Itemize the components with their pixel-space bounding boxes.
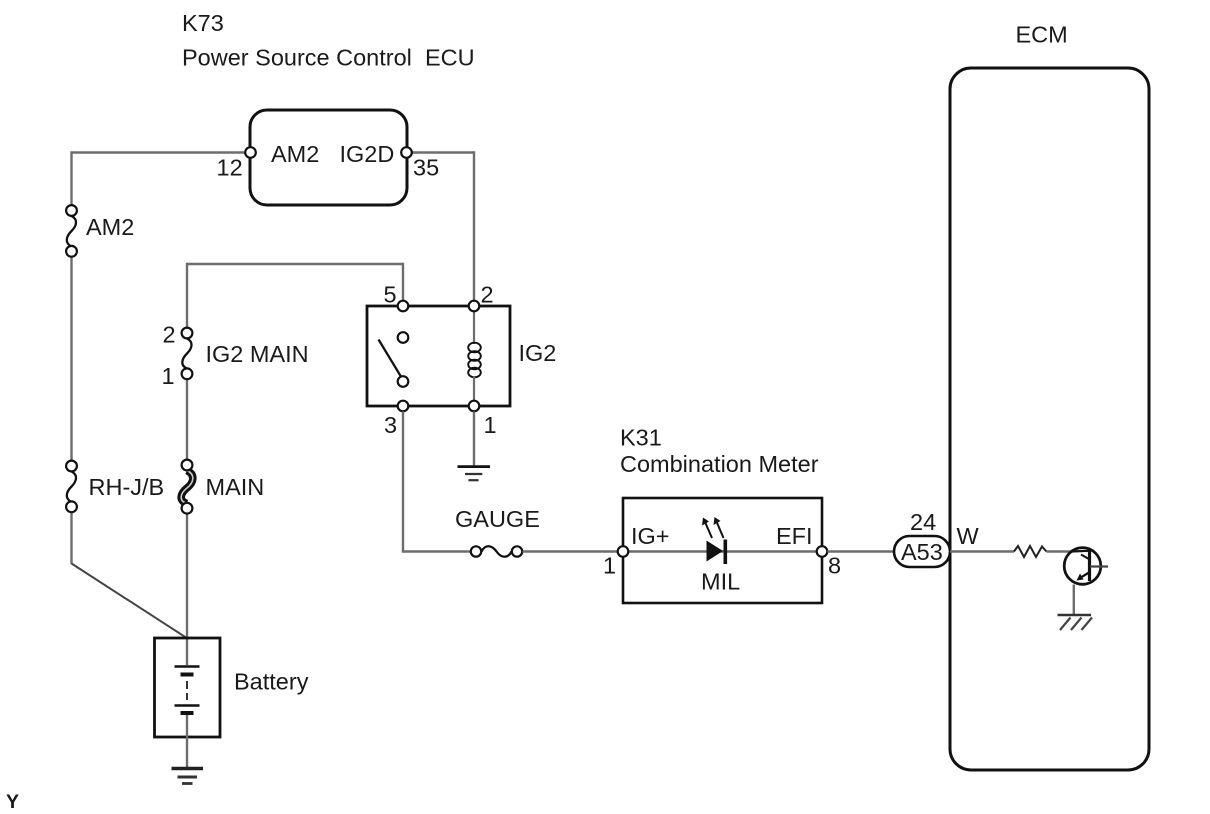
fuse IG2 MAIN <box>162 322 309 390</box>
svg-text:5: 5 <box>384 281 397 307</box>
wire inside ECM to resistor <box>950 550 1014 552</box>
svg-text:1: 1 <box>162 363 175 389</box>
wire coil to relay pin1 <box>473 376 475 406</box>
wire fuse GAUGE to meter pin 1 <box>523 550 619 552</box>
wire between fuse IG2 MAIN and fusible link MAIN <box>186 379 188 461</box>
svg-text:IG+: IG+ <box>631 523 670 549</box>
svg-text:Combination Meter: Combination Meter <box>620 451 819 477</box>
svg-text:K73: K73 <box>182 10 224 36</box>
pin 2 of relay <box>469 281 494 311</box>
pin 8 of meter <box>817 546 841 579</box>
battery cells <box>175 667 200 714</box>
svg-text:A53: A53 <box>901 539 943 565</box>
svg-text:IG2 MAIN: IG2 MAIN <box>206 341 309 367</box>
connector A53 <box>894 509 950 567</box>
relay switch moving contact <box>398 376 409 387</box>
relay switch blade <box>379 340 401 377</box>
svg-text:1: 1 <box>484 412 497 438</box>
svg-text:Power Source Control ECU: Power Source Control ECU <box>182 45 475 71</box>
ground under battery <box>172 769 204 784</box>
svg-text:35: 35 <box>413 155 439 181</box>
wire vertical x=187 down to fuse IG2 MAIN <box>186 263 188 329</box>
ground under relay <box>458 467 491 481</box>
wire from K73 pin 35 right then down <box>411 151 474 153</box>
svg-text:8: 8 <box>828 553 841 579</box>
pin 35 of K73 <box>401 147 439 180</box>
svg-text:2: 2 <box>163 322 176 348</box>
wire resistor to transistor base <box>1047 550 1073 552</box>
svg-text:ECM: ECM <box>1016 22 1068 48</box>
svg-text:RH-J/B: RH-J/B <box>89 474 165 500</box>
fuse RH-J/B <box>66 461 164 513</box>
wire relay pin3 down <box>402 412 404 552</box>
svg-text:Y: Y <box>6 791 19 813</box>
wire between fuse AM2 and fuse RH-J/B <box>70 256 72 462</box>
wire vertical down to relay pin 5 <box>402 263 404 302</box>
wire corner to fuse GAUGE <box>402 550 472 552</box>
fuse AM2 <box>66 205 134 257</box>
wire left vertical from corner down to fuse AM2 <box>70 151 72 206</box>
svg-text:2: 2 <box>481 281 494 307</box>
pin 1 of meter <box>603 546 628 579</box>
svg-text:IG2D: IG2D <box>340 141 395 167</box>
pin 3 of relay <box>384 401 408 438</box>
connector K73 ECU body <box>250 110 407 205</box>
pin 12 of K73 <box>217 147 256 180</box>
wire relay pin1 to ground <box>473 412 475 466</box>
transistor Q (MIL driver) <box>1064 548 1108 585</box>
wire below fuse RH-J/B <box>70 512 72 564</box>
svg-text:24: 24 <box>910 509 936 535</box>
svg-text:GAUGE: GAUGE <box>455 506 540 532</box>
wire from K73 pin 12 left to node at top-left <box>72 151 247 153</box>
svg-text:AM2: AM2 <box>86 214 134 240</box>
pin 1 of relay <box>469 401 497 438</box>
svg-text:MAIN: MAIN <box>206 474 265 500</box>
svg-text:3: 3 <box>384 412 397 438</box>
wire inside meter through MIL lamp <box>629 550 817 552</box>
relay coil IG2 <box>468 343 481 378</box>
svg-text:W: W <box>957 523 980 549</box>
svg-text:1: 1 <box>603 553 616 579</box>
wire transistor emitter to chassis ground <box>1073 585 1075 615</box>
pin 5 of relay <box>384 281 409 311</box>
fuse GAUGE <box>455 506 540 557</box>
svg-text:K31: K31 <box>620 425 662 451</box>
ECM body <box>950 68 1149 770</box>
wire battery negative to ground <box>186 715 188 768</box>
fusible link MAIN <box>181 460 264 514</box>
chassis ground in ECM <box>1058 615 1093 630</box>
svg-text:IG2: IG2 <box>519 340 557 366</box>
wire relay pin2 to coil <box>473 306 475 344</box>
svg-text:EFI: EFI <box>776 523 813 549</box>
wire horizontal bus y=264 from MAIN branch to relay pin 5 branch <box>187 263 403 265</box>
combination meter K31 body <box>623 498 822 603</box>
svg-text:AM2: AM2 <box>271 141 319 167</box>
svg-text:MIL: MIL <box>701 569 740 595</box>
LED MIL <box>702 517 727 564</box>
svg-text:12: 12 <box>217 155 243 181</box>
wire diagonal to battery positive <box>72 564 187 638</box>
svg-text:Battery: Battery <box>234 668 309 694</box>
wire from fusible link MAIN down to battery <box>186 513 188 665</box>
resistor in ECM <box>1014 546 1047 557</box>
wire meter pin 8 to connector A53 <box>828 550 896 552</box>
relay switch fixed contact <box>398 332 409 343</box>
relay IG2 body <box>367 306 510 406</box>
wire vertical down to relay IG2 pin 2 <box>473 151 475 301</box>
battery body <box>155 638 221 737</box>
